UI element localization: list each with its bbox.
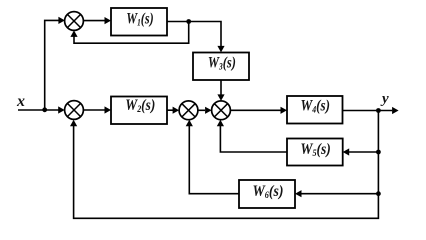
wire feedback trunk (70, 111, 378, 219)
summing junction S3 (179, 101, 198, 120)
wire input x to summer S2 (18, 106, 65, 113)
svg-text:W6(s): W6(s) (253, 183, 284, 201)
summing junction S2 (65, 101, 84, 120)
wire W5 output to summer S4 (217, 120, 287, 152)
block W2 (111, 97, 167, 125)
wire S2 to block W2 (83, 106, 111, 113)
wire S1 to block W1 (83, 17, 111, 24)
node dot W1 output (186, 19, 191, 24)
svg-text:x: x (16, 93, 25, 110)
summing junction S4 (212, 101, 231, 120)
node dot output (376, 108, 381, 113)
block W1 (111, 8, 167, 36)
wire tap to block W5 (343, 148, 379, 155)
node dot input branch (42, 107, 47, 112)
wire tap to block W6 (295, 190, 378, 197)
svg-text:W3(s): W3(s) (208, 54, 236, 72)
block W3 (193, 53, 249, 81)
block W4 (287, 96, 343, 124)
svg-text:W1(s): W1(s) (126, 11, 154, 29)
wire feedback W1 output to S1 (70, 22, 188, 44)
wire S4 to block W4 (230, 107, 287, 114)
wire W4 output to y (343, 107, 399, 114)
summing junction S1 (65, 12, 84, 31)
svg-text:W2(s): W2(s) (125, 97, 155, 115)
wire W1 output to W3 input (167, 22, 225, 53)
node dot W5 tap (376, 150, 381, 155)
wire W6 output to summer S3 (186, 120, 239, 194)
wire S3 to summer S4 (198, 107, 212, 114)
svg-text:W4(s): W4(s) (301, 98, 331, 116)
block W6 (239, 180, 295, 208)
svg-text:y: y (380, 91, 389, 107)
block W5 (287, 139, 343, 166)
wire W2 to summer S3 (167, 107, 179, 114)
svg-text:W5(s): W5(s) (300, 141, 331, 159)
node dot W6 tap (376, 191, 381, 196)
wire branch up to summer S1 (45, 17, 65, 110)
input label x (16, 93, 25, 110)
output label y (380, 91, 389, 107)
wire W3 output to summer S4 (217, 80, 224, 101)
